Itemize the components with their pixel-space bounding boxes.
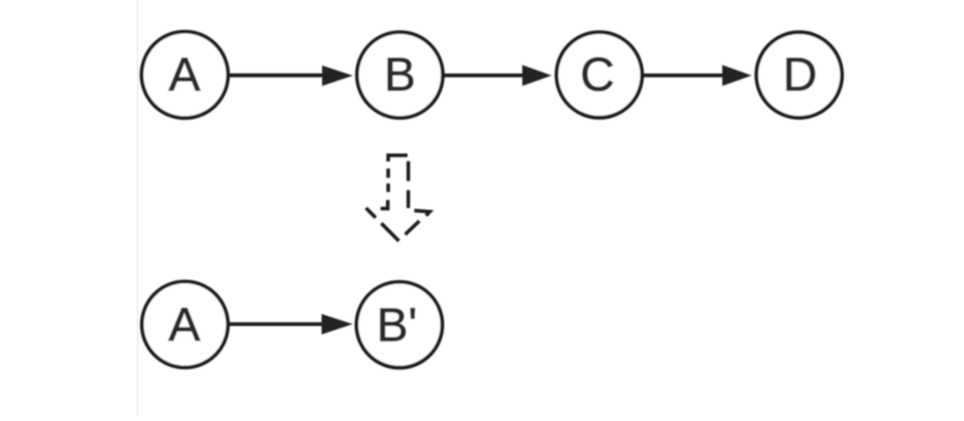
- node A (top): [142, 32, 228, 118]
- svg-text:D: D: [783, 48, 817, 101]
- wire A to B': [228, 322, 325, 326]
- node A (bottom): [142, 282, 228, 368]
- arrowhead A to B': [322, 315, 351, 334]
- svg-text:B: B: [384, 49, 416, 102]
- wire B to C: [442, 74, 526, 78]
- node D (top): [756, 32, 842, 118]
- svg-text:B': B': [377, 299, 418, 352]
- dashed block arrow (B down): [366, 155, 430, 241]
- node C (top): [557, 32, 643, 118]
- svg-text:C: C: [580, 49, 614, 102]
- svg-text:A: A: [169, 298, 201, 351]
- wire C to D: [642, 74, 726, 78]
- node B (top): [357, 32, 443, 118]
- svg-text:A: A: [169, 48, 201, 101]
- node B' (bottom): [357, 282, 443, 368]
- arrowhead A to B: [323, 66, 352, 85]
- arrowhead C to D: [723, 66, 751, 86]
- scan artifact line: [137, 0, 139, 416]
- arrowhead B to C: [523, 66, 551, 86]
- wire A to B: [228, 73, 325, 77]
